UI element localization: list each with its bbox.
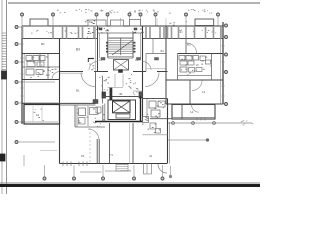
exterior door arc — [158, 164, 167, 173]
kitchen fixtures right — [149, 101, 156, 108]
bottom grid bubbles — [43, 177, 46, 180]
corridor dark door mark — [119, 70, 123, 73]
balcony top-right — [195, 19, 214, 26]
mid-right room walls — [152, 39, 154, 54]
wall above light well y=96.5 — [103, 96, 143, 98]
stair side door arc right — [143, 62, 152, 71]
stair treads — [109, 38, 133, 40]
sheet top border line — [8, 2, 260, 4]
sheet left edge inner line — [6, 0, 8, 194]
left unit wall y=53.5 — [22, 53, 60, 55]
bottom right stem with dot — [170, 166, 172, 175]
wing kitchen fixtures — [143, 117, 149, 123]
svg-text:14: 14 — [190, 110, 194, 114]
left edge dark block upper — [2, 71, 7, 79]
kitchen wall x=147 — [146, 99, 148, 119]
left grid bubbles and leaders — [15, 26, 18, 29]
canopy top mid-b — [130, 20, 141, 27]
outer wall left x=22 — [21, 26, 23, 124]
stair hall line y=33 — [98, 32, 143, 34]
heavy wall y=121.5 — [95, 121, 143, 123]
left edge ladder hatch — [2, 32, 7, 34]
canopy top mid-a — [111, 20, 124, 26]
wing wall x=133 — [132, 123, 134, 164]
svg-text:B2: B2 — [41, 42, 45, 46]
left wall window ticks — [21, 43, 24, 45]
sheet bottom thick black band — [0, 184, 260, 186]
right unit door arc top — [187, 43, 197, 53]
left unit bottom wall y=103.5 double — [22, 102, 96, 104]
top grid bubbles — [21, 13, 24, 16]
wing interior double wall — [96, 139, 98, 164]
exterior door verticals — [143, 164, 145, 175]
right unit wall y=53.5 — [178, 53, 224, 55]
right unit interior walls — [177, 54, 179, 81]
outer wall top y=26 — [22, 25, 223, 27]
right unit wall y=80 — [166, 79, 223, 81]
wing wall x=109.5 — [109, 123, 111, 164]
unit divider x=59.5 — [59, 39, 61, 164]
top band wall piers — [22, 26, 24, 39]
dark wall corner left unit — [88, 58, 94, 60]
sheet left edge outer line — [1, 0, 3, 194]
bottom-right leader — [168, 139, 206, 141]
stair handrail posts — [106, 42, 107, 43]
kitchen wall y=98.5 — [143, 98, 168, 100]
outer wall right x=223 — [222, 22, 224, 104]
stair side door arc left — [89, 62, 98, 71]
corridor left wall x=95.5 — [95, 72, 97, 104]
light well small rect — [116, 114, 130, 118]
right grid bubbles — [225, 24, 228, 27]
corridor wall y=71.5 left part — [60, 71, 84, 73]
corridor kitchen left — [102, 76, 104, 104]
corridor kitchen right — [133, 82, 134, 85]
left unit interior wall x=40 — [39, 54, 41, 68]
label blob left of elevator — [101, 58, 105, 61]
wing light vertical x=129.5 — [129, 123, 131, 164]
balcony room inner wall x=182 — [181, 105, 183, 120]
left unit bath fixtures — [26, 56, 32, 61]
stair hall left wall x=97.5 double — [97, 26, 99, 72]
svg-text:P1: P1 — [110, 153, 114, 157]
stair niche left — [99, 33, 101, 58]
dark pier left of light well — [110, 88, 112, 100]
svg-text:B3: B3 — [76, 48, 80, 52]
stair break diagonal — [112, 40, 133, 55]
right unit divider x=166 — [165, 26, 167, 104]
right unit wall x=190 lower — [189, 80, 191, 105]
light well inner box with X — [113, 101, 131, 113]
left unit door arc — [52, 72, 60, 80]
right unit bath fixtures — [179, 56, 185, 61]
extra top ticks — [120, 18, 122, 26]
balcony room door arc — [192, 105, 200, 113]
right unit bottom wall y=104 — [166, 103, 223, 105]
svg-text:B2: B2 — [187, 43, 191, 47]
stair top band text — [105, 29, 106, 32]
bottom wall window ticks — [62, 162, 64, 167]
svg-text:41: 41 — [149, 154, 153, 158]
kitchen counter line — [143, 134, 168, 136]
inner wall line y=38.5 — [22, 38, 98, 40]
bottom dimension connector lines — [80, 171, 102, 173]
bottom-right balcony room — [172, 105, 215, 120]
top dimension text specks — [79, 8, 80, 11]
svg-text:B1: B1 — [76, 89, 80, 93]
left unit wall y=79.5 — [22, 79, 60, 81]
left unit wall y=67 — [22, 66, 60, 68]
faint line y=91 — [133, 90, 143, 92]
light well outer box — [108, 100, 136, 120]
corridor wall y=71.5 right part — [133, 71, 146, 73]
stair landing edge — [108, 55, 133, 57]
entrance steps — [116, 165, 128, 172]
svg-text:14: 14 — [202, 90, 206, 94]
elevator box — [114, 60, 129, 71]
right unit entry arc — [145, 73, 159, 87]
line y=118.7 extension — [150, 118, 172, 120]
right unit wall y=75.5 — [178, 75, 212, 77]
left edge dark block lower — [0, 154, 5, 161]
wing door arc — [88, 129, 99, 140]
corridor inner verticals — [114, 74, 116, 87]
balcony top-left — [30, 19, 48, 26]
bath cluster walls — [74, 105, 76, 127]
bath cluster fixtures — [79, 108, 86, 116]
bottom-right dimension line — [168, 122, 252, 124]
left unit entry arc — [81, 73, 95, 87]
svg-text:P1: P1 — [81, 154, 85, 158]
left small stem near bottom — [23, 155, 25, 166]
sheet bottom thin line — [0, 182, 260, 184]
dark blob at bath corner — [93, 100, 98, 104]
right unit wall x=186 upper — [185, 26, 187, 54]
svg-text:k4: k4 — [36, 113, 40, 117]
canopy top mid-left — [88, 20, 106, 26]
right wall window ticks — [222, 45, 225, 47]
stair niche right — [132, 33, 134, 58]
bottom wing bottom wall y=163.5 — [60, 163, 168, 165]
wing right wall x=167.5 — [167, 99, 169, 164]
stair hall right wall x=142.5 — [142, 26, 144, 122]
faint leader y=150.5 — [40, 150, 57, 152]
stair stringer — [120, 38, 122, 55]
svg-text:B1: B1 — [161, 49, 165, 53]
top band text specks — [36, 30, 37, 33]
wall x=140.5 thick — [140, 97, 142, 122]
left unit interior wall x=48 — [47, 54, 49, 80]
balcony room bottom ticks — [196, 117, 198, 121]
bottom-left balcony room — [24, 105, 60, 125]
wing dashed line — [89, 128, 91, 163]
svg-text:4B: 4B — [119, 92, 123, 96]
right unit door arc bottom — [192, 81, 202, 91]
left unit text 1F1.0 — [47, 69, 48, 72]
